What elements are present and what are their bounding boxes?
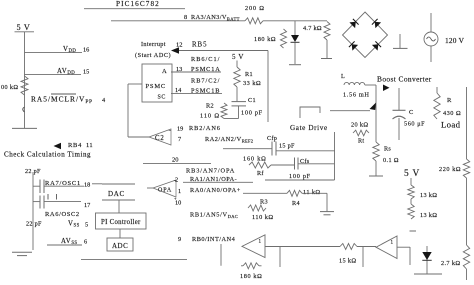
svg-text:220 kΩ: 220 kΩ [439, 166, 461, 173]
svg-text:8: 8 [184, 14, 187, 21]
svg-text:5 V: 5 V [232, 53, 244, 61]
svg-text:14: 14 [175, 87, 182, 94]
svg-text:2: 2 [175, 177, 178, 184]
svg-text:Check Calculation Timing: Check Calculation Timing [4, 151, 91, 159]
svg-text:R4: R4 [292, 200, 300, 207]
svg-text:1: 1 [178, 188, 181, 195]
svg-text:RB2/AN6: RB2/AN6 [189, 125, 221, 132]
svg-text:33 kΩ: 33 kΩ [243, 80, 261, 87]
svg-text:18: 18 [84, 182, 90, 189]
svg-text:PIC16C782: PIC16C782 [116, 0, 160, 8]
svg-text:C: C [409, 109, 413, 116]
svg-text:13 kΩ: 13 kΩ [420, 212, 437, 219]
svg-text:Rs: Rs [384, 146, 391, 153]
svg-text:560 μF: 560 μF [404, 121, 425, 128]
svg-text:16: 16 [83, 47, 89, 54]
svg-text:160 kΩ: 160 kΩ [243, 156, 267, 163]
svg-text:5: 5 [85, 222, 88, 229]
svg-text:DAC: DAC [108, 190, 125, 198]
svg-text:Boost Converter: Boost Converter [377, 75, 432, 84]
svg-text:Rf: Rf [257, 170, 264, 177]
svg-text:110 kΩ: 110 kΩ [252, 214, 274, 221]
svg-text:OPA: OPA [158, 188, 172, 194]
svg-text:2.7 kΩ: 2.7 kΩ [441, 260, 460, 267]
svg-text:00 kΩ: 00 kΩ [1, 84, 18, 91]
svg-text:110 Ω: 110 Ω [200, 113, 220, 120]
svg-text:PI Controller: PI Controller [101, 219, 141, 226]
svg-text:5 V: 5 V [17, 23, 31, 32]
svg-text:RB5: RB5 [192, 42, 207, 49]
svg-text:Cfp: Cfp [267, 135, 277, 142]
svg-text:R1: R1 [245, 71, 253, 78]
svg-text:11: 11 [86, 142, 93, 149]
svg-text:180 kΩ: 180 kΩ [240, 273, 262, 280]
svg-text:0.1 Ω: 0.1 Ω [383, 157, 399, 164]
svg-text:5 V: 5 V [404, 169, 420, 179]
svg-text:19: 19 [177, 126, 183, 133]
svg-text:Rt: Rt [358, 138, 364, 145]
svg-text:PSMC: PSMC [146, 83, 167, 90]
svg-text:R2: R2 [206, 103, 214, 110]
svg-text:100 pF: 100 pF [241, 110, 263, 117]
svg-text:RA0/AN0/OPA+: RA0/AN0/OPA+ [190, 187, 241, 194]
svg-text:PSMC1A: PSMC1A [191, 66, 221, 73]
svg-text:100 pF: 100 pF [289, 173, 311, 180]
svg-text:R3: R3 [260, 199, 268, 206]
svg-text:15 kΩ: 15 kΩ [339, 258, 356, 265]
svg-text:RB6/C1/: RB6/C1/ [191, 56, 220, 63]
svg-text:15 pF: 15 pF [279, 143, 295, 150]
svg-text:A: A [162, 68, 167, 75]
svg-text:13 kΩ: 13 kΩ [420, 192, 437, 199]
svg-text:RB4: RB4 [68, 142, 82, 149]
svg-text:Gate Drive: Gate Drive [290, 124, 328, 132]
svg-text:11 kΩ: 11 kΩ [303, 189, 320, 196]
svg-text:C2: C2 [155, 135, 165, 142]
svg-text:7: 7 [178, 136, 181, 143]
svg-text:RB3/AN7/OPA: RB3/AN7/OPA [186, 168, 235, 175]
svg-text:200 Ω: 200 Ω [245, 5, 265, 12]
svg-text:120 V: 120 V [445, 36, 465, 45]
svg-text:SC: SC [158, 95, 166, 101]
svg-text:R: R [447, 97, 452, 104]
svg-text:1.56 mH: 1.56 mH [343, 92, 370, 99]
svg-text:6: 6 [84, 239, 87, 246]
svg-text:RA6/OSC2: RA6/OSC2 [45, 211, 80, 218]
svg-text:10: 10 [175, 200, 181, 207]
svg-text:(Start ADC): (Start ADC) [135, 52, 171, 59]
svg-text:180 kΩ: 180 kΩ [254, 36, 276, 43]
svg-text:12: 12 [176, 42, 183, 49]
svg-text:17: 17 [84, 202, 90, 209]
svg-text:4.7 kΩ: 4.7 kΩ [303, 25, 322, 32]
svg-text:430 Ω: 430 Ω [443, 110, 461, 117]
svg-text:PSMC1B: PSMC1B [191, 88, 220, 95]
svg-text:15: 15 [83, 69, 89, 76]
svg-text:ADC: ADC [112, 242, 128, 250]
svg-text:RA5/MCLR/VPP: RA5/MCLR/VPP [31, 95, 93, 105]
svg-text:L: L [341, 73, 345, 80]
svg-text:RB0/INT/AN4: RB0/INT/AN4 [192, 236, 236, 243]
svg-text:RA7/OSC1: RA7/OSC1 [45, 180, 81, 187]
svg-text:9: 9 [178, 236, 181, 243]
svg-text:22 pF: 22 pF [26, 221, 42, 228]
svg-text:C1: C1 [248, 97, 256, 104]
svg-text:20 kΩ: 20 kΩ [351, 122, 368, 129]
svg-text:Interrupt: Interrupt [141, 41, 166, 48]
svg-text:Load: Load [441, 120, 461, 130]
svg-text:RB7/C2/: RB7/C2/ [191, 78, 220, 85]
svg-text:20: 20 [172, 157, 179, 164]
svg-text:RA1/AN1/OPA-: RA1/AN1/OPA- [190, 176, 237, 183]
